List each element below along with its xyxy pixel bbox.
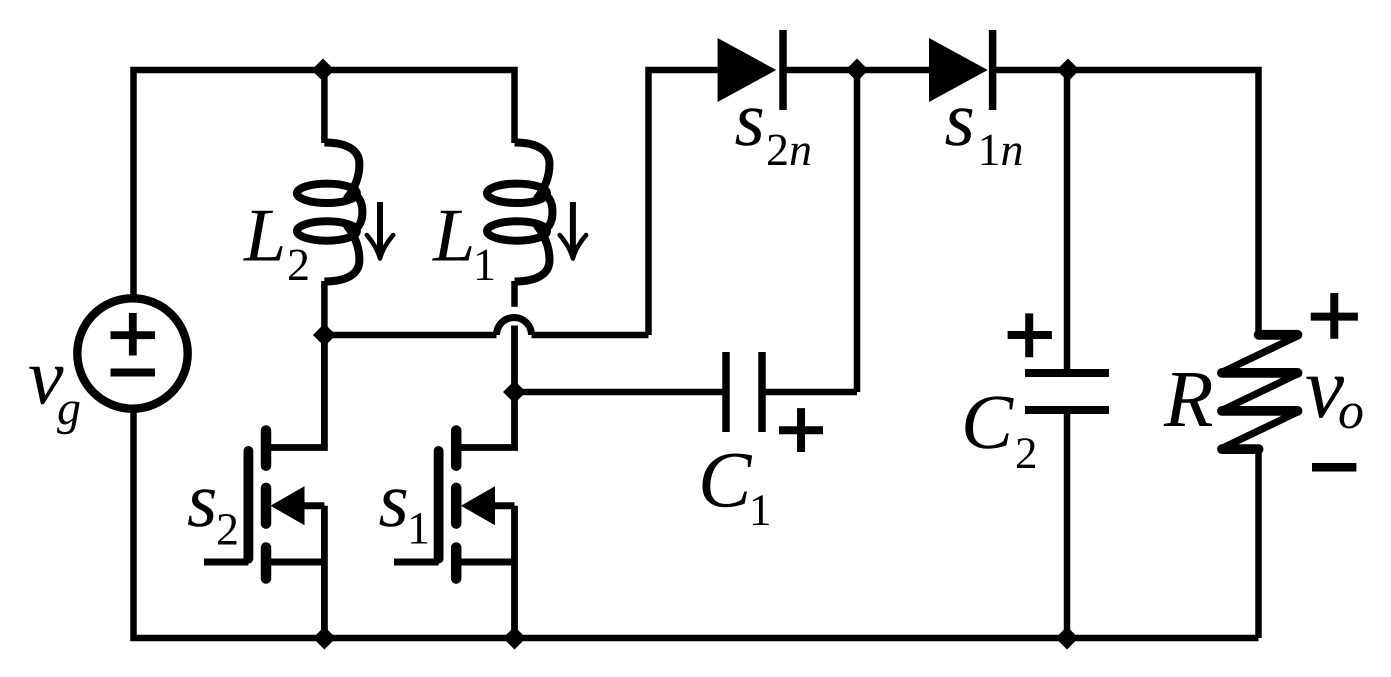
svg-text:C: C — [698, 437, 753, 525]
wire L1 lead below hop down through node N1 to s1 drain — [456, 326, 514, 448]
mosfet s2 drain lead from B1 — [266, 335, 324, 448]
svg-text:R: R — [1163, 354, 1213, 444]
wire C2 riser from top node — [1064, 70, 1071, 370]
mosfet s2 gate line — [243, 451, 253, 559]
mosfet s1 arrow lead — [491, 502, 515, 509]
vo plus sign — [1311, 293, 1358, 339]
wire N1 to C1 left plate — [515, 389, 723, 396]
mosfet s2 arrow lead — [301, 502, 324, 509]
wire hop to riser corner and up to diode s2n — [532, 70, 718, 335]
inductor L1 coil — [487, 143, 553, 282]
voltage source vg circle — [77, 298, 187, 408]
wire L2 top lead — [321, 70, 328, 143]
resistor R zigzag — [1222, 335, 1299, 449]
svg-text:2n: 2n — [766, 124, 812, 175]
node T1 junction diamond — [312, 59, 335, 82]
diode s2n cathode bar — [779, 30, 787, 110]
current arrow beside L2 — [367, 202, 393, 259]
wire diode s1n cathode along top to right corner — [993, 70, 1259, 335]
vg plus sign — [111, 313, 156, 356]
wire C1 right plate to riser up to top node — [766, 70, 858, 392]
wire diode s2n cathode to node and on to diode s1n — [783, 67, 929, 74]
diode s1n triangle — [929, 38, 988, 102]
svg-text:s: s — [379, 456, 409, 543]
C1 plus sign — [779, 408, 823, 452]
svg-text:s: s — [187, 456, 217, 543]
mosfet s1 gate lead — [394, 559, 439, 566]
svg-text:2: 2 — [1015, 428, 1038, 478]
vo minus sign — [1312, 463, 1356, 472]
C2 plus sign — [1008, 313, 1052, 357]
capacitor C1 right plate — [758, 352, 766, 432]
svg-text:1: 1 — [749, 485, 772, 535]
svg-text:1n: 1n — [978, 124, 1024, 175]
svg-text:L: L — [432, 194, 475, 278]
wire R bottom lead — [1255, 449, 1262, 638]
wire C2 lower plate to bottom rail — [1064, 413, 1071, 638]
mosfet s1 gate line — [434, 451, 444, 559]
node N1 junction diamond — [503, 381, 526, 404]
svg-text:o: o — [1338, 383, 1364, 440]
node B1 junction diamond — [313, 324, 336, 347]
diode s2n triangle — [718, 38, 777, 102]
vg minus sign — [111, 369, 156, 377]
mosfet s1 source vertical to rail — [511, 506, 518, 638]
svg-text:C: C — [961, 378, 1014, 465]
mosfet s2 source vertical to rail — [321, 506, 328, 638]
diode s1n cathode bar — [989, 30, 997, 110]
svg-text:s: s — [735, 75, 765, 162]
mosfet s2 body arrow — [270, 486, 304, 525]
wire top-left rail from vg to L1 top — [134, 70, 515, 300]
mosfet s1 body arrow — [461, 486, 495, 525]
wire L1 bottom lead above hop — [511, 281, 518, 307]
mosfet s2 gate lead — [204, 559, 248, 566]
node bottom junction diamond C2 — [1056, 627, 1079, 650]
wire B1 to hop — [324, 332, 496, 339]
svg-text:2: 2 — [216, 504, 239, 555]
mosfet s1 channel bars — [451, 431, 462, 579]
wire hop crossover arc — [497, 318, 532, 336]
capacitor C2 lower plate — [1025, 406, 1109, 414]
wire vg bottom to bottom-left corner and bottom rail — [134, 408, 1259, 638]
mosfet s2 source lead — [266, 559, 324, 566]
inductor L2 coil — [297, 143, 363, 282]
capacitor C2 upper plate — [1025, 369, 1109, 377]
svg-text:g: g — [57, 382, 81, 435]
svg-text:s: s — [945, 75, 975, 162]
mosfet s2 channel bars — [261, 431, 272, 579]
current arrow beside L1 — [560, 202, 586, 259]
node top junction diamond at C2 branch — [1057, 59, 1080, 82]
node top junction diamond between diodes — [846, 59, 869, 82]
svg-text:L: L — [243, 194, 286, 278]
capacitor C1 left plate — [722, 352, 730, 432]
wire L2 bottom lead — [321, 281, 328, 335]
svg-text:1: 1 — [407, 503, 430, 554]
svg-text:2: 2 — [287, 239, 310, 290]
node bottom junction diamond s1 — [503, 627, 526, 650]
mosfet s1 source lead — [456, 559, 514, 566]
svg-text:1: 1 — [473, 239, 496, 290]
node bottom junction diamond s2 — [313, 627, 336, 650]
